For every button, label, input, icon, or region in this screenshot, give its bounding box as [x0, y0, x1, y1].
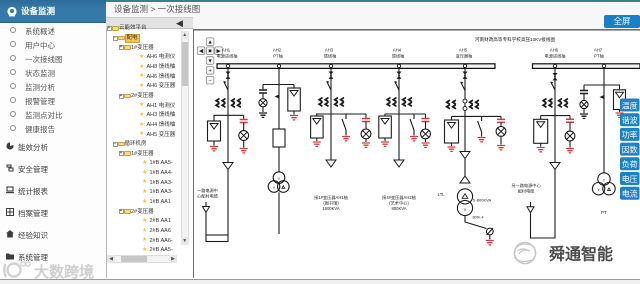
- wire AH1 cable loop: [205, 213, 207, 236]
- svg-text:功率: 功率: [622, 130, 638, 140]
- disconnector: [394, 81, 399, 90]
- svg-text:电源进线柚: 电源进线柚: [217, 53, 238, 60]
- ground (red): [384, 138, 386, 141]
- ground (red) AH5 lamp: [500, 136, 502, 144]
- feeder designators: [217, 48, 238, 60]
- ground (red): [425, 139, 427, 142]
- svg-text:S·800KVA: S·800KVA: [473, 198, 492, 203]
- svg-text:▲: ▲: [207, 40, 212, 46]
- drawout plug: [326, 160, 336, 167]
- branch wire: [385, 113, 426, 115]
- sidebar active header: [0, 0, 106, 23]
- vendor logo: [505, 240, 635, 266]
- svg-text:▼: ▼: [207, 59, 212, 65]
- breaker arrow AH7: [600, 95, 605, 99]
- svg-text:负荷: 负荷: [622, 159, 638, 169]
- breadcrumb: [114, 3, 314, 14]
- ground (red) AH5 left: [451, 143, 453, 146]
- transformer T1: [457, 189, 472, 216]
- live-line capacitor: [365, 114, 367, 119]
- load label AH3: [314, 194, 348, 211]
- wire AH main: [398, 68, 400, 160]
- ground (red) AH1 left: [213, 141, 215, 146]
- live-line capacitor: [425, 114, 427, 119]
- svg-text:温度: 温度: [622, 100, 638, 110]
- drawout plug AH5: [460, 152, 470, 159]
- top toolbar strip: [105, 2, 640, 30]
- wire AH2 main: [278, 68, 280, 129]
- fuse F2: [273, 129, 285, 147]
- ground AH7 left: [583, 109, 585, 113]
- drawout contact: [329, 72, 334, 79]
- bus taps: [226, 64, 229, 67]
- wire AH7 main: [603, 68, 605, 172]
- svg-text:800/.4: 800/.4: [472, 215, 484, 220]
- tree header bar: [106, 17, 193, 30]
- CT: [387, 98, 411, 106]
- svg-text:变压器柚: 变压器柚: [456, 53, 473, 60]
- wire AH6 cable loop: [531, 170, 556, 239]
- h scrollbar: [107, 255, 177, 263]
- drawout plug up AH5: [464, 159, 466, 184]
- svg-text:舜通智能: 舜通智能: [549, 245, 613, 264]
- svg-text:AH2: AH2: [273, 48, 282, 53]
- PT fuse box: [316, 114, 318, 116]
- ground (red): [316, 138, 318, 141]
- indicator lamp: [425, 122, 427, 130]
- svg-text:AH5: AH5: [459, 48, 468, 53]
- svg-text:电源进线柚: 电源进线柚: [545, 53, 566, 60]
- disconnector: [326, 81, 331, 90]
- svg-text:电压: 电压: [622, 174, 638, 184]
- disconnector AH6: [550, 81, 555, 90]
- zoom pad: [206, 38, 214, 46]
- ground (red) AH6 left: [540, 143, 542, 146]
- svg-text:PT: PT: [601, 210, 607, 215]
- svg-text:+: +: [208, 68, 211, 74]
- test plugs AH5: [463, 99, 467, 103]
- svg-text:PT柚: PT柚: [594, 53, 604, 60]
- breaker arrow AH2: [275, 94, 280, 98]
- wire AH main: [330, 68, 332, 160]
- drawout plug AH1: [223, 163, 233, 170]
- svg-text:−: −: [208, 78, 211, 84]
- earthing switch: [345, 114, 347, 119]
- disconnector QS1: [223, 81, 228, 90]
- bus W2: [533, 64, 640, 69]
- branch wire: [316, 113, 366, 115]
- indicator lamp: [365, 122, 367, 130]
- ground (red) AH7: [619, 110, 621, 113]
- earthing switch AH5: [481, 116, 483, 121]
- capacitor AH2: [262, 85, 264, 91]
- side buttons: [620, 99, 640, 112]
- PT fuse box AH1: [208, 121, 221, 141]
- svg-text:AH7: AH7: [594, 48, 603, 53]
- svg-text:Y: Y: [463, 208, 466, 213]
- PT fuse box AH6: [540, 116, 542, 120]
- svg-text:心配村电缆: 心配村电缆: [197, 193, 219, 200]
- tree panel body: [106, 29, 193, 278]
- wire AH1 branch: [214, 114, 244, 116]
- wire AH5 main: [464, 68, 466, 151]
- svg-text:配村电缆: 配村电缆: [518, 188, 536, 195]
- capacitor AH7: [583, 85, 585, 91]
- left sidebar: [0, 0, 106, 278]
- ground (red): [365, 139, 367, 142]
- svg-text:1600KVA: 1600KVA: [322, 206, 340, 211]
- svg-text:馈线柚: 馈线柚: [324, 53, 337, 60]
- svg-text:■: ■: [208, 49, 211, 55]
- disconnector AH5: [460, 81, 465, 90]
- PT fuse box: [384, 114, 386, 116]
- PT fuse box AH2: [293, 85, 295, 89]
- svg-text:Y: Y: [603, 178, 606, 183]
- neutral switch: [486, 228, 493, 235]
- indicator lamp AH7: [583, 93, 585, 100]
- fullscreen button: [604, 15, 640, 28]
- PT fuse box AH5: [451, 116, 453, 120]
- load label AH4: [382, 194, 416, 211]
- bus W1: [217, 64, 495, 69]
- svg-text:AH1: AH1: [222, 48, 231, 53]
- ground (red): [410, 137, 418, 141]
- wire AH5 branch: [452, 115, 502, 117]
- live-line capacitor AH5: [500, 116, 502, 119]
- drawout contact AH1: [226, 72, 231, 79]
- svg-text:1TL: 1TL: [437, 192, 445, 197]
- PT transformer T7: [592, 173, 615, 195]
- svg-text:800KVA: 800KVA: [391, 206, 406, 211]
- cable label AH1: [197, 187, 219, 200]
- indicator lamp AH5: [500, 122, 502, 126]
- CT AH5: [447, 101, 479, 109]
- wire AH2 branch: [263, 84, 294, 86]
- svg-text:因数: 因数: [622, 144, 638, 154]
- indicator lamp AH2: [262, 93, 264, 99]
- svg-text:AH6: AH6: [550, 48, 559, 53]
- wire AH6 main: [554, 68, 556, 162]
- watermark logo: [1, 260, 101, 282]
- indicator lamp AH6: [569, 122, 571, 131]
- svg-text:PT柚: PT柚: [273, 53, 283, 60]
- svg-text:馈线柚: 馈线柚: [392, 53, 405, 60]
- svg-text:AH4: AH4: [393, 48, 402, 53]
- ground (red) AH1 right: [243, 140, 245, 147]
- ground AH2 left: [262, 107, 264, 112]
- wire neutral: [465, 216, 487, 229]
- drawout contact AH5: [463, 72, 468, 79]
- CT: [319, 98, 343, 106]
- PT fuse box AH7: [619, 84, 621, 89]
- wire: [278, 192, 280, 234]
- v scrollbar: [181, 31, 189, 245]
- CT TA1: [216, 99, 240, 107]
- indicator lamp AH1: [243, 123, 245, 131]
- svg-text:AH3: AH3: [325, 48, 334, 53]
- drawout contact AH6: [553, 73, 558, 80]
- ground (red) AH6 lamp: [569, 141, 571, 148]
- wire AH6 branch: [541, 115, 570, 117]
- live-line capacitor AH6: [569, 116, 571, 120]
- ground (red): [342, 137, 350, 141]
- wire AH7 branch: [584, 84, 620, 86]
- wire AH1 main: [227, 68, 229, 162]
- live-line capacitor AH1: [243, 115, 245, 119]
- top teal line: [105, 0, 640, 2]
- wire: [278, 147, 280, 172]
- svg-text:河南财政高等专科学校高压10KV接线图: 河南财政高等专科学校高压10KV接线图: [475, 36, 556, 43]
- earthing switch: [413, 114, 415, 119]
- svg-text:谐波: 谐波: [622, 115, 638, 125]
- svg-text:Y: Y: [278, 176, 281, 181]
- drawout plug AH6: [550, 163, 560, 170]
- cable label AH6: [511, 182, 541, 195]
- svg-text:Y: Y: [273, 185, 276, 190]
- incoming arrow AH6: [530, 202, 532, 207]
- drawout contact: [397, 72, 402, 79]
- ground (red) AH2: [293, 111, 295, 115]
- ground (red) T1: [489, 235, 491, 240]
- PT transformer T2: [268, 172, 289, 193]
- svg-text:Y: Y: [597, 187, 600, 192]
- drawout plug: [394, 160, 404, 167]
- CT AH6: [543, 99, 567, 107]
- svg-text:电流: 电流: [622, 189, 638, 199]
- incoming arrow AH1: [205, 202, 207, 207]
